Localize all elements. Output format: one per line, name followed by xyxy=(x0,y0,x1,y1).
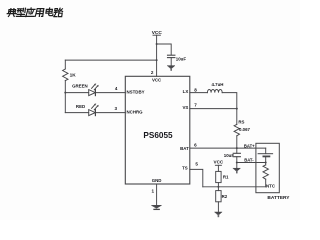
wire pin7 VS xyxy=(190,108,237,110)
svg-text:R1: R1 xyxy=(223,174,229,179)
ground (below C1) xyxy=(167,66,175,69)
ground (below C2) xyxy=(233,163,240,173)
svg-text:3: 3 xyxy=(114,106,117,111)
wire BAT- row xyxy=(237,162,266,164)
resistor R2 xyxy=(216,187,221,212)
svg-text:BAT: BAT xyxy=(180,146,189,151)
svg-text:BAT-: BAT- xyxy=(244,158,254,163)
capacitor C2 10uF xyxy=(233,148,240,162)
wire green row xyxy=(65,92,88,94)
svg-text:8: 8 xyxy=(194,87,197,92)
node C2/BAT- xyxy=(236,162,238,164)
wire inductor to VS node xyxy=(222,93,237,109)
svg-text:BAT+: BAT+ xyxy=(244,144,255,149)
路 xyxy=(54,8,63,16)
VCC symbol (R1 top) xyxy=(215,165,221,171)
node R1/R2 tap xyxy=(217,186,219,188)
wire TS to NTC bottom xyxy=(203,186,266,188)
svg-text:7: 7 xyxy=(194,103,197,108)
svg-text:1: 1 xyxy=(152,189,155,194)
wire VCC to 1K xyxy=(65,59,156,61)
wire LED2 to pin 3 xyxy=(95,112,125,114)
thermistor NTC xyxy=(263,163,268,187)
battery box xyxy=(256,143,279,192)
wire pin6 BAT row xyxy=(190,147,266,149)
resistor 1K xyxy=(63,60,68,113)
svg-text:LX: LX xyxy=(183,89,189,94)
svg-text:4.7uH: 4.7uH xyxy=(212,82,224,87)
svg-text:NTC: NTC xyxy=(266,183,276,188)
VCC symbol (top) xyxy=(153,35,160,76)
svg-text:1K: 1K xyxy=(70,72,77,78)
svg-text:6: 6 xyxy=(194,142,197,147)
resistor RS 0.067 xyxy=(234,109,239,149)
inductor L1 4.7uH xyxy=(207,90,222,93)
svg-text:PS6055: PS6055 xyxy=(143,131,173,140)
resistor R1 xyxy=(216,171,221,186)
svg-text:GND: GND xyxy=(152,178,162,183)
IC U1 PS6055 body xyxy=(125,76,190,184)
svg-text:RED: RED xyxy=(76,104,85,109)
svg-text:GREEN: GREEN xyxy=(72,84,88,89)
node A (green led branch) xyxy=(64,92,66,94)
svg-text:2: 2 xyxy=(151,70,154,75)
应 xyxy=(26,8,36,17)
wire pin1 GND xyxy=(156,184,158,205)
battery cell BT1 xyxy=(258,148,273,162)
LED D2 RED xyxy=(89,104,99,116)
ground (GND pin) xyxy=(152,205,162,209)
svg-text:10uF: 10uF xyxy=(176,57,187,62)
用 xyxy=(35,9,43,17)
capacitor C1 10uF xyxy=(168,55,175,65)
svg-text:BATTERY: BATTERY xyxy=(267,195,290,201)
node at VCC/1K branch xyxy=(156,59,158,61)
svg-text:4: 4 xyxy=(115,86,118,91)
svg-text:RS: RS xyxy=(238,120,244,125)
node at VCC/C1 branch xyxy=(156,43,158,45)
svg-text:0.067: 0.067 xyxy=(239,127,251,132)
wire pin5 TS xyxy=(190,169,203,186)
ground (below R2) xyxy=(215,212,222,215)
svg-text:NSTDBY: NSTDBY xyxy=(127,89,145,94)
wire VCC branch to C1 xyxy=(157,44,172,55)
LED D1 GREEN xyxy=(89,84,99,96)
svg-text:R2: R2 xyxy=(222,194,228,199)
wire red row xyxy=(65,112,88,114)
svg-text:VS: VS xyxy=(182,105,188,110)
典 xyxy=(7,9,17,17)
node cell/NTC xyxy=(265,162,267,164)
wire LED1 to pin 4 xyxy=(95,92,125,94)
型 xyxy=(16,8,26,16)
svg-text:VCC: VCC xyxy=(152,30,163,36)
wire pin8 LX to inductor xyxy=(190,92,208,94)
node VS/RS xyxy=(236,108,238,110)
svg-text:TS: TS xyxy=(182,165,188,170)
svg-text:VCC: VCC xyxy=(214,160,224,165)
svg-text:NCHRG: NCHRG xyxy=(127,109,144,114)
电 xyxy=(46,8,54,16)
svg-text:5: 5 xyxy=(195,162,198,167)
node BAT/RS/C2 xyxy=(236,147,238,149)
svg-text:10uF: 10uF xyxy=(224,153,235,158)
title 典型应用电路 (hand-drawn CJK strokes) xyxy=(7,8,63,17)
svg-text:VCC: VCC xyxy=(152,77,162,82)
